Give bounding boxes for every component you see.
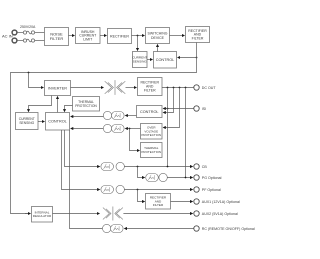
svg-text:REGULATOR: REGULATOR <box>33 214 52 218</box>
wire junction to current sensing <box>137 36 139 51</box>
svg-text:AC IN: AC IN <box>2 34 13 39</box>
svg-text:FILTER: FILTER <box>192 37 204 41</box>
node junction <box>167 166 169 168</box>
node junction <box>137 35 139 37</box>
svg-text:AUX1 (12V1A) Optional: AUX1 (12V1A) Optional <box>202 200 240 204</box>
wire arrow into internal regulator <box>25 213 30 215</box>
wire DC bus <box>11 43 197 214</box>
svg-text:FILTER: FILTER <box>144 89 156 93</box>
wire PG branch <box>138 167 145 178</box>
svg-text:SENSING: SENSING <box>19 121 34 125</box>
wire AUX2 out <box>123 213 192 215</box>
node junction <box>179 87 181 89</box>
block THERMAL PROTECTION inverter <box>73 97 100 112</box>
wire coupler2 to control inverter <box>71 128 104 130</box>
wire control to inverter drive <box>57 97 59 113</box>
terminal AUX1 <box>194 199 199 204</box>
wire inverter to transformer T1 <box>71 87 104 89</box>
node junction <box>185 177 187 179</box>
svg-text:RECTIFIER: RECTIFIER <box>110 34 129 38</box>
node junction bus <box>28 72 30 74</box>
svg-text:DC OUT: DC OUT <box>202 86 217 90</box>
svg-text:250V/20A: 250V/20A <box>20 25 36 29</box>
wire <box>170 35 185 37</box>
svg-text:INVERTER: INVERTER <box>48 86 67 90</box>
svg-text:CONTROL: CONTROL <box>48 120 67 124</box>
svg-text:CONTROL: CONTROL <box>140 110 159 114</box>
photocoupler PF <box>101 185 125 193</box>
wire CB feed from control <box>65 130 100 167</box>
wire <box>100 35 106 37</box>
block RECTIFIER AND FILTER output <box>138 78 163 96</box>
terminal AC line <box>12 30 17 35</box>
wire bus v3 to OVP <box>163 88 179 128</box>
transformer T1 <box>105 80 126 95</box>
terminal RC <box>194 226 199 231</box>
terminal AUX2 <box>194 211 199 216</box>
svg-text:DEVICE: DEVICE <box>151 36 165 40</box>
block CONTROL secondary <box>137 106 163 118</box>
block OVER VOLTAGE PROTECTION <box>141 124 163 140</box>
block RECTIFIER input <box>108 29 132 44</box>
wire bus v4 to PG line <box>185 88 187 178</box>
wire bus v2 to control secondary <box>163 88 173 113</box>
wire feedback to control pfc <box>178 57 197 59</box>
wire bus to inverter <box>29 73 44 88</box>
block NOISE FILTER <box>45 28 69 46</box>
wire CB out <box>124 166 192 168</box>
photocoupler feedback row1 <box>103 111 124 119</box>
svg-text:PF Optional: PF Optional <box>202 188 221 192</box>
svg-text:PROTECTION: PROTECTION <box>141 150 161 154</box>
block INTERNAL REGULATOR <box>32 207 53 223</box>
wire RC feed from control <box>70 130 103 229</box>
wire ISI line <box>163 108 193 110</box>
node junction <box>185 87 187 89</box>
block INRUSH CURRENT LIMIT <box>76 28 101 44</box>
fuse F1 <box>23 31 34 34</box>
svg-text:PROTECTION: PROTECTION <box>75 104 97 108</box>
svg-text:AUX2 (5V1A) Optional: AUX2 (5V1A) Optional <box>202 212 238 216</box>
wire OVP to coupler2 <box>126 128 141 130</box>
wire coupler1 to control inverter <box>71 116 104 118</box>
block CURRENT SENSING pfc <box>132 52 147 68</box>
terminal PF <box>194 187 199 192</box>
wire control to switching device <box>157 45 159 52</box>
block RECTIFIER AND FILTER pfc <box>186 27 210 43</box>
terminal PG <box>194 175 199 180</box>
svg-text:PG Optional: PG Optional <box>202 176 222 180</box>
svg-text:PROTECTION: PROTECTION <box>141 133 161 137</box>
node junction <box>129 128 131 130</box>
terminal DC OUT <box>194 85 199 90</box>
wire <box>17 40 24 42</box>
fuse F2 <box>23 39 34 42</box>
node junction <box>167 108 169 110</box>
block SWITCHING DEVICE <box>146 28 170 44</box>
terminal ISI <box>194 106 199 111</box>
wire <box>17 32 24 34</box>
node junction <box>196 57 198 59</box>
node junction <box>137 166 139 168</box>
wire <box>38 121 44 123</box>
photocoupler RC <box>103 224 124 232</box>
photocoupler protection row2 <box>103 124 124 132</box>
block RECTIFIER AND FILTER aux <box>146 194 171 210</box>
wire PG out <box>167 177 192 179</box>
svg-text:FILTER: FILTER <box>50 36 64 41</box>
wire <box>147 59 152 61</box>
wire PF out <box>124 189 192 191</box>
wire PF feed from control <box>62 130 100 190</box>
wire T1 to rectifier <box>126 87 137 89</box>
wire control secondary to coupler1 <box>126 115 137 117</box>
svg-text:RC (REMOTE ON/OFF) Optional: RC (REMOTE ON/OFF) Optional <box>202 227 255 231</box>
photocoupler CB <box>101 162 125 170</box>
wire AUX1 out <box>171 201 193 203</box>
terminal AC neutral <box>12 38 17 43</box>
wire thermal to control <box>65 106 73 112</box>
wire bus v1 to CB line <box>167 88 169 167</box>
block CURRENT SENSING inverter <box>16 113 39 130</box>
node junction <box>173 87 175 89</box>
wire regulator to transformer T2 <box>53 213 100 215</box>
block INVERTER <box>45 81 71 96</box>
node junction <box>137 189 139 191</box>
svg-text:ISI: ISI <box>202 107 206 111</box>
svg-text:CB: CB <box>202 165 208 169</box>
wire inverter current sense tap <box>29 96 52 112</box>
svg-text:LIMIT: LIMIT <box>83 38 93 42</box>
wire <box>35 40 45 42</box>
wire RC line <box>125 228 194 230</box>
block CONTROL pfc <box>154 52 177 69</box>
block THERMAL PROTECTION secondary <box>141 143 163 158</box>
terminal CB <box>194 164 199 169</box>
node junction <box>167 87 169 89</box>
block CONTROL inverter <box>46 113 70 131</box>
wire DC OUT line <box>162 87 194 89</box>
wire <box>35 32 45 34</box>
svg-text:SENSING: SENSING <box>133 59 148 63</box>
wire <box>132 35 145 37</box>
wire thermal2 to coupler2 line <box>130 129 140 151</box>
svg-text:FILTER: FILTER <box>153 203 164 207</box>
wire <box>69 35 75 37</box>
transformer T2 <box>103 207 123 221</box>
svg-text:CONTROL: CONTROL <box>156 58 175 62</box>
photocoupler PG <box>146 173 168 181</box>
wire branch to aux rectifier <box>138 190 145 202</box>
